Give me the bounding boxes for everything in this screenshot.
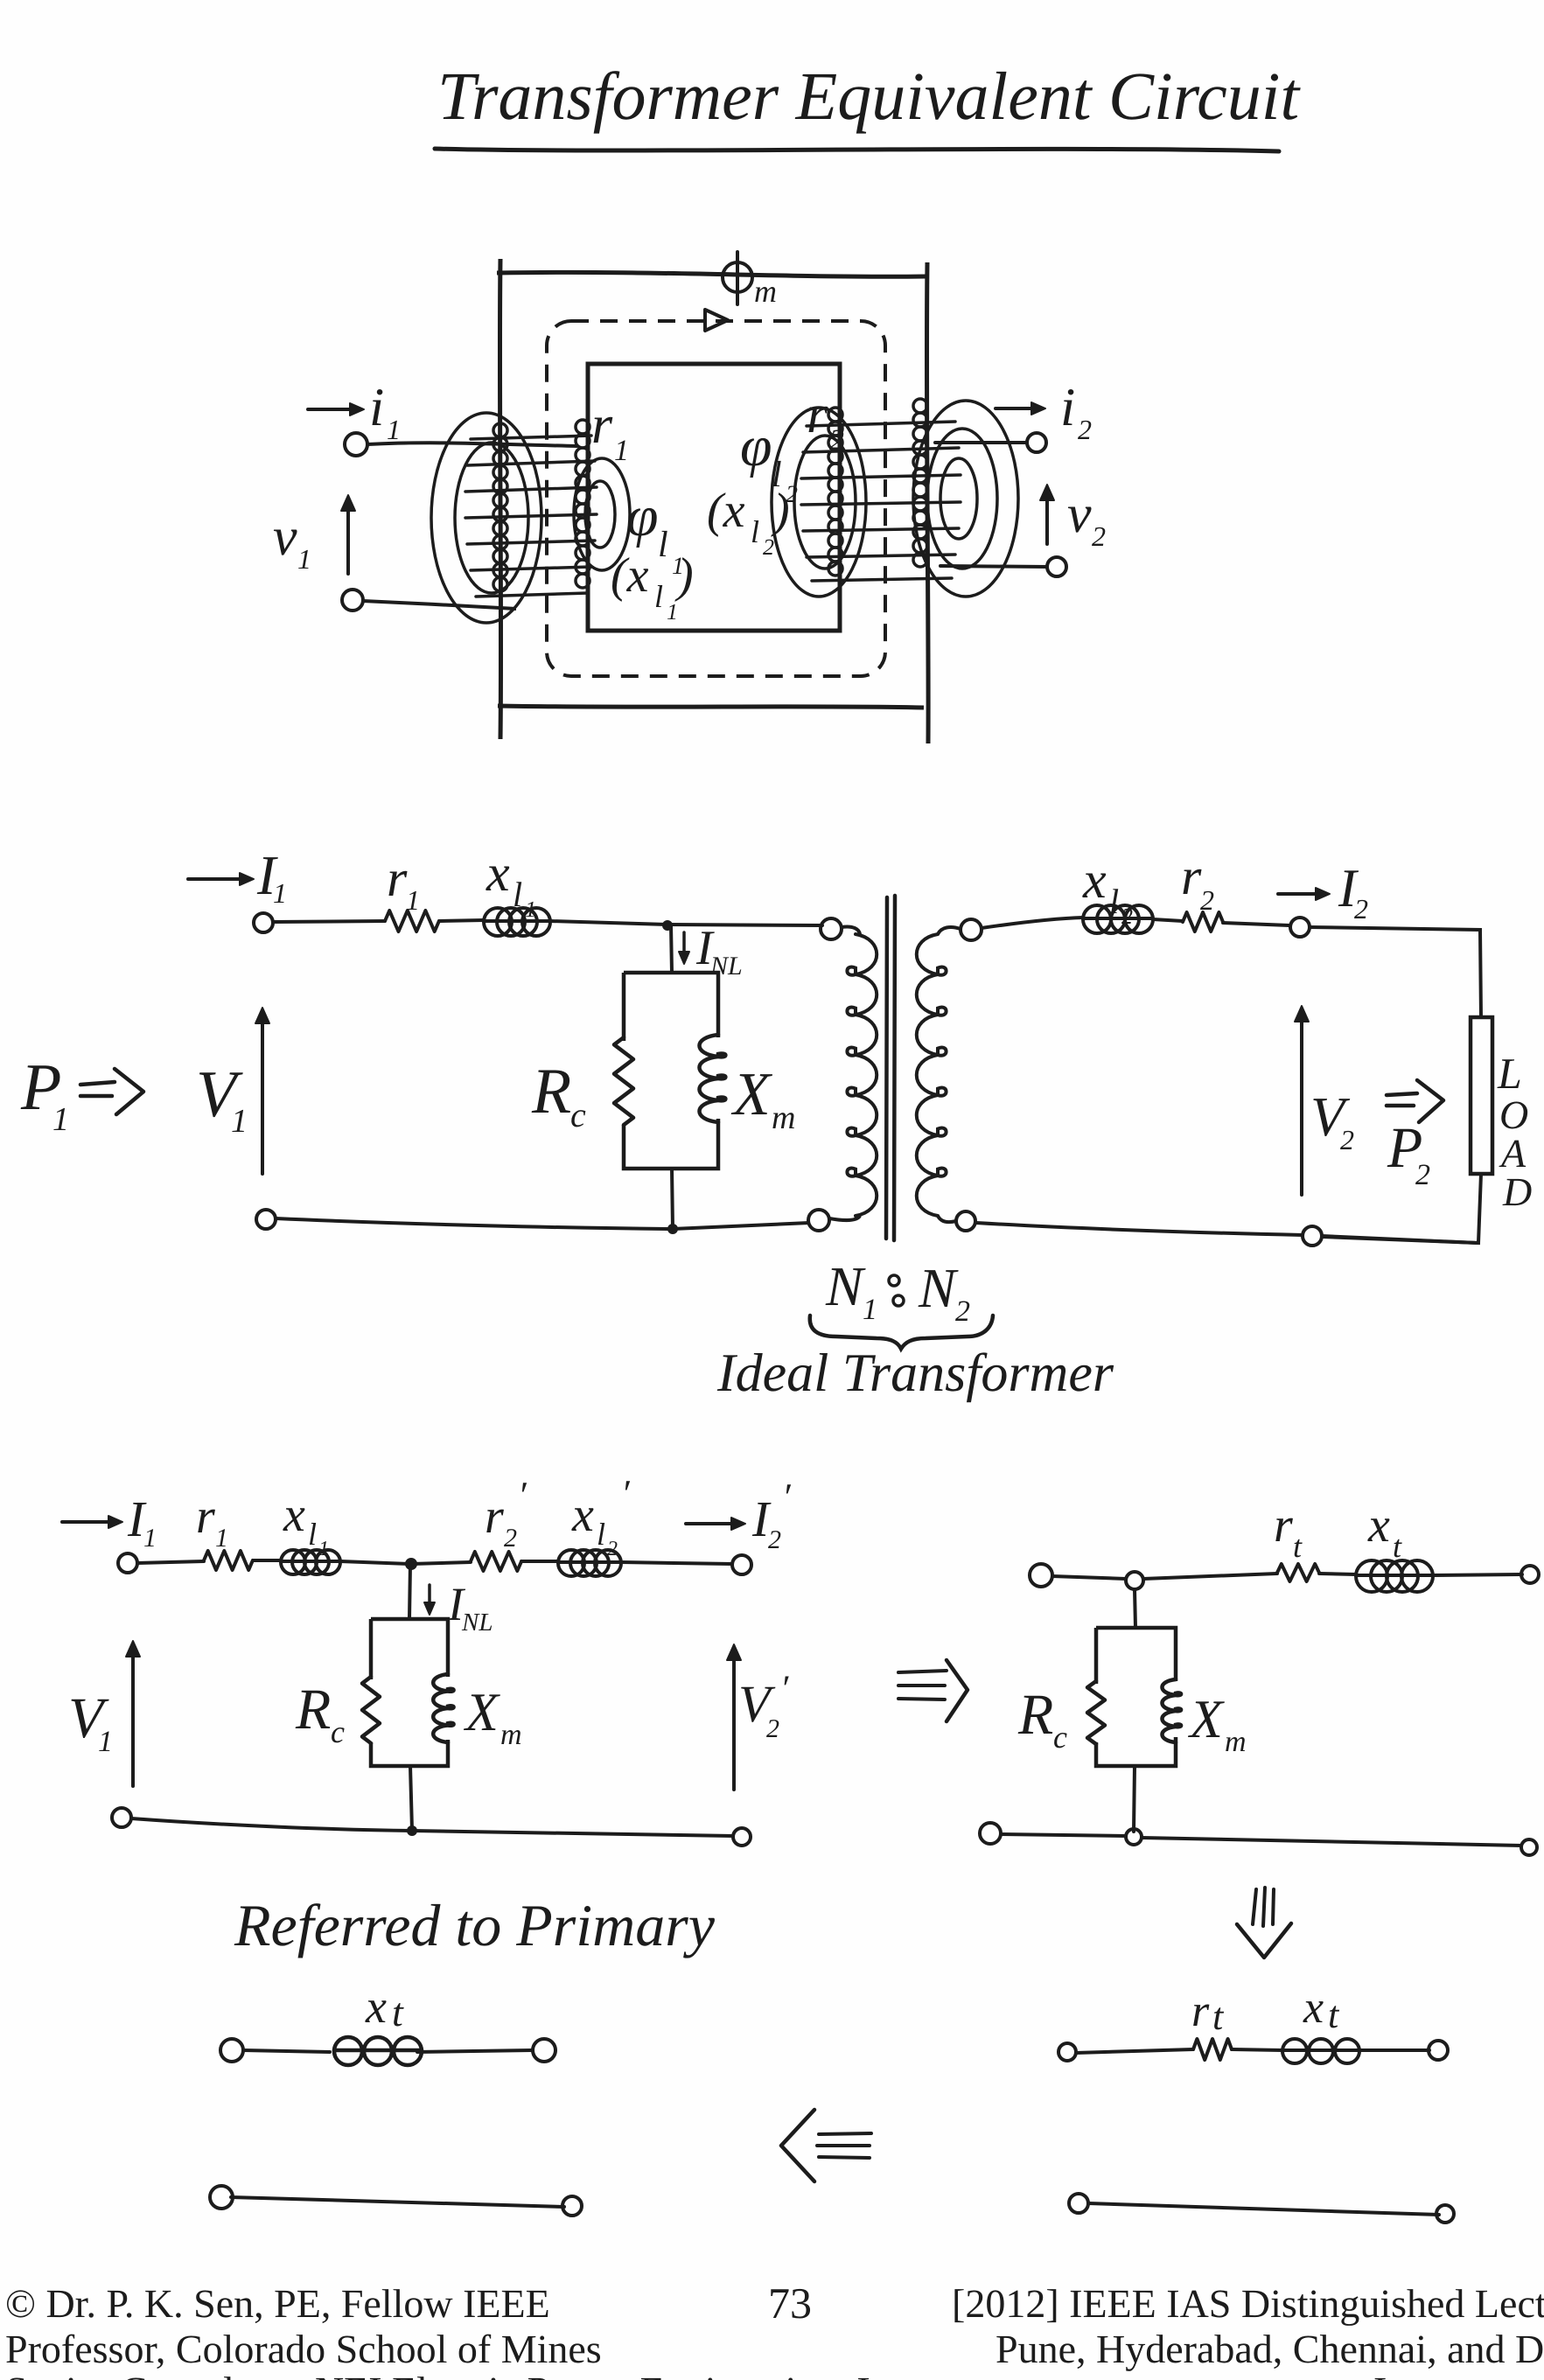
svg-text:x: x [571, 1488, 594, 1542]
arrow I_NL (ref) [428, 1585, 431, 1611]
resistor Rc (ref) [362, 1677, 380, 1743]
wire node to box (simp) [1135, 1589, 1135, 1628]
wire left (bottom-right ckt) [1076, 2049, 1193, 2053]
primary winding turn bumps left column [493, 423, 507, 437]
svg-text:): ) [771, 484, 790, 538]
inductor Xm (ref) [433, 1674, 453, 1742]
svg-text:R: R [1017, 1683, 1053, 1747]
svg-text:t: t [1328, 1993, 1340, 2036]
arrow i1 [308, 408, 360, 411]
flux direction arrowhead [705, 310, 728, 331]
svg-text:x: x [1082, 851, 1107, 909]
node junction (middle) [662, 920, 673, 931]
wire box-bottom (simp) [1134, 1766, 1135, 1832]
svg-text:2: 2 [1092, 520, 1106, 552]
svg-text:m: m [1225, 1726, 1247, 1758]
terminal bottom rail (middle) [1303, 1226, 1322, 1246]
wire right (bottom-left ckt) [417, 2050, 532, 2052]
wire xl2p-terminal (ref) [621, 1562, 732, 1564]
terminal right bottom (simp) [1521, 1839, 1537, 1855]
shunt box (simp) [1096, 1628, 1176, 1766]
wire box to bottom rail (middle) [672, 1169, 673, 1228]
terminal right (bottom-left ckt) [533, 2039, 555, 2062]
shunt box (ref) [371, 1619, 448, 1766]
shunt box (middle) [624, 973, 718, 1169]
flux path Phi_m dashed loop [547, 321, 885, 676]
svg-text:1: 1 [231, 1103, 248, 1140]
svg-text:′: ′ [782, 1476, 792, 1518]
terminal top-right (core) [1027, 433, 1046, 452]
inductor xt (bottom left) [334, 2048, 422, 2053]
arrow I2 (middle) [1278, 892, 1326, 896]
inductor xl1 (middle) [484, 919, 550, 923]
svg-text:x: x [283, 1488, 305, 1542]
flux symbol Phi_m [723, 262, 752, 292]
terminal left (bottom-right ckt) [1058, 2043, 1076, 2061]
wire top-right (core) [935, 441, 1027, 444]
wire coil top stub (middle) [842, 926, 860, 934]
svg-text:1: 1 [525, 897, 536, 922]
wire sec coil bottom stub [938, 1216, 956, 1222]
resistor r2 (middle) [1183, 912, 1223, 932]
svg-text:l: l [597, 1517, 605, 1552]
equiv arrow left [781, 2110, 814, 2181]
svg-text:I: I [1373, 2369, 1387, 2380]
equiv arrow right [898, 1671, 947, 1672]
big arrow P1 [80, 1082, 115, 1085]
svg-text:l: l [654, 579, 663, 614]
arrow I_NL (middle) [682, 932, 686, 960]
svg-text:1: 1 [297, 543, 311, 575]
svg-text:1: 1 [273, 877, 287, 909]
svg-text:r: r [1274, 1498, 1293, 1553]
inductor Xm (simp) [1162, 1679, 1181, 1742]
terminal bottom-left (middle) [256, 1210, 276, 1229]
terminal right (bottom-right ckt) [1429, 2041, 1448, 2060]
svg-text:r: r [1191, 1986, 1210, 2036]
wire left (ref) [137, 1561, 204, 1563]
svg-text:r: r [196, 1490, 215, 1544]
svg-text:L: L [1497, 1049, 1522, 1098]
svg-text:NL: NL [461, 1609, 493, 1637]
node bottom (middle) [667, 1224, 678, 1234]
ideal transformer secondary coil [917, 934, 947, 1216]
svg-text:v: v [273, 507, 297, 567]
svg-text:Senior Consultant, NEI Electri: Senior Consultant, NEI Electric Power En… [5, 2369, 919, 2380]
arrow I1 (ref) [62, 1520, 119, 1524]
svg-text:2: 2 [607, 1538, 618, 1560]
svg-text:x: x [486, 844, 510, 902]
svg-text:x: x [1303, 1983, 1324, 2033]
svg-text:v: v [1067, 485, 1092, 544]
svg-text:1: 1 [667, 599, 678, 625]
terminal primary coil bottom (middle) [808, 1210, 829, 1231]
core inner window rectangle [588, 364, 840, 631]
svg-text:2: 2 [829, 424, 844, 457]
wire top rail left (middle) [273, 921, 385, 922]
svg-text:1: 1 [98, 1726, 113, 1758]
wire bottom rail (middle) [276, 1218, 809, 1229]
node junction (ref) [405, 1558, 417, 1570]
terminal bl2 (bottom-right ckt) [1069, 2194, 1088, 2213]
svg-text:X: X [730, 1061, 773, 1128]
svg-text:2: 2 [766, 1714, 779, 1743]
terminal left bottom (simp) [980, 1823, 1001, 1844]
inductor Xm (middle) [699, 1035, 725, 1122]
svg-text:2: 2 [1340, 1124, 1354, 1155]
node bottom (ref) [407, 1825, 417, 1836]
arrow V2 (middle) [1300, 1009, 1303, 1195]
terminal left bottom (ref) [112, 1808, 131, 1827]
resistor r2p (ref) [471, 1552, 521, 1571]
bottom wire (bottom-left ckt) [231, 2197, 564, 2207]
svg-text:2: 2 [955, 1295, 970, 1328]
wire terminal-load top (middle) [1310, 927, 1481, 1017]
brace ideal transformer [810, 1316, 993, 1349]
svg-text:t: t [1212, 1995, 1225, 2038]
arrow V1 (middle) [261, 1011, 264, 1174]
svg-text:t: t [1293, 1529, 1303, 1564]
svg-text:Transformer Equivalent Circuit: Transformer Equivalent Circuit [437, 58, 1301, 134]
svg-text:R: R [531, 1056, 571, 1127]
big arrow P2 [1387, 1093, 1417, 1095]
inductor xt (simp) [1356, 1574, 1433, 1577]
svg-text:N: N [918, 1257, 959, 1319]
ideal transformer core lines [886, 897, 887, 1239]
wire node to box (ref) [409, 1564, 410, 1619]
svg-text:1: 1 [614, 435, 629, 467]
terminal top-left (core) [345, 433, 367, 456]
svg-text:73: 73 [768, 2279, 812, 2328]
wire bottom rail secondary [976, 1223, 1478, 1243]
svg-text:1: 1 [387, 414, 401, 445]
svg-text:2: 2 [1354, 893, 1368, 925]
wire left-node (simp) [1052, 1576, 1126, 1579]
svg-text:l: l [513, 875, 522, 914]
wire bottom-left (core) [363, 601, 516, 609]
svg-text:′: ′ [780, 1669, 789, 1709]
bottom wire (bottom-right ckt) [1088, 2203, 1439, 2215]
terminal left top (ref) [118, 1553, 137, 1573]
wire node-rt (simp) [1143, 1574, 1277, 1579]
wire xl2-r2 (middle) [1153, 919, 1183, 921]
svg-text:l: l [1109, 882, 1119, 921]
wire rt-xt (simp) [1319, 1574, 1356, 1574]
inductor xl2p (ref) [558, 1560, 621, 1564]
svg-text:r: r [387, 849, 408, 907]
svg-text:1: 1 [863, 1294, 877, 1326]
svg-text:2: 2 [1078, 414, 1092, 445]
primary winding leakage flux ellipses [431, 413, 541, 623]
svg-text:[2012] IEEE IAS Distinguished: [2012] IEEE IAS Distinguished Lecturer P [952, 2281, 1544, 2326]
svg-text:l: l [751, 514, 759, 549]
svg-text:m: m [772, 1099, 795, 1136]
wire coil bottom stub (middle) [829, 1216, 860, 1220]
svg-text:(x: (x [611, 548, 649, 603]
terminal bottom-left (core) [342, 590, 363, 611]
svg-text:Pune, Hyderabad, Chennai, and: Pune, Hyderabad, Chennai, and De [996, 2327, 1544, 2371]
svg-text:′: ′ [621, 1472, 631, 1515]
svg-text:r: r [485, 1490, 504, 1544]
svg-text:2: 2 [1415, 1159, 1430, 1191]
svg-text:Referred to Primary: Referred to Primary [234, 1892, 716, 1958]
wire node to box (middle) [671, 925, 672, 973]
node circle bottom (simp) [1126, 1829, 1142, 1845]
resistor r1 (ref) [204, 1551, 253, 1570]
svg-text:1: 1 [318, 1538, 329, 1560]
svg-text:1: 1 [215, 1524, 228, 1553]
svg-text:1: 1 [143, 1524, 157, 1553]
wire r2p-xl2p (ref) [521, 1560, 558, 1563]
wire r2-terminal (middle) [1223, 923, 1289, 925]
secondary winding turns [807, 422, 955, 426]
svg-text:X: X [1187, 1690, 1225, 1749]
svg-text:(x: (x [707, 484, 745, 538]
terminal right top (simp) [1521, 1566, 1539, 1583]
svg-text:m: m [754, 274, 777, 309]
svg-text:2: 2 [1200, 884, 1214, 916]
svg-text:′: ′ [518, 1474, 527, 1517]
terminal bottom-right (core) [1047, 557, 1066, 576]
wire bottom rail (simp) [1001, 1834, 1522, 1846]
resistor r1 (middle) [385, 911, 439, 932]
svg-text:c: c [1053, 1720, 1067, 1755]
terminal br2 (bottom-right ckt) [1436, 2205, 1454, 2223]
wire mid (bottom-right ckt) [1232, 2049, 1282, 2050]
terminal top-left (middle) [254, 913, 273, 932]
terminal left (bottom-left ckt) [220, 2039, 243, 2062]
load resistor box (middle) [1471, 1017, 1492, 1174]
arrow v2 [1045, 488, 1049, 544]
terminal bl1 (bottom-left ckt) [210, 2186, 233, 2209]
wire r1-xl1 (middle) [439, 920, 484, 921]
svg-text:1: 1 [52, 1101, 69, 1138]
primary winding turns [471, 436, 591, 439]
wire bottom-right (core) [940, 566, 1047, 567]
svg-text:Professor, Colorado School of: Professor, Colorado School of Mines [5, 2327, 602, 2371]
arrow i2 [996, 407, 1042, 410]
secondary winding leakage flux ellipses [772, 408, 866, 597]
terminal br1 (bottom-left ckt) [562, 2196, 582, 2216]
wire bottom rail (ref) [131, 1818, 733, 1836]
svg-text:φ: φ [740, 415, 772, 478]
svg-text:X: X [463, 1683, 500, 1742]
arrow I1 (middle) [188, 877, 250, 881]
inductor xt (bottom right) [1282, 2048, 1359, 2052]
secondary winding turn bumps right column [913, 399, 927, 413]
arrow v1 [346, 499, 350, 574]
terminal I2 (middle) [1290, 918, 1310, 937]
wire node-r2p (ref) [411, 1562, 471, 1564]
wire right (bottom-right ckt) [1359, 2048, 1429, 2052]
resistor rt (bottom right) [1193, 2039, 1232, 2060]
inductor xl1 (ref) [281, 1560, 340, 1563]
primary winding turn bumps right column [576, 420, 590, 434]
svg-text:φ: φ [626, 485, 659, 548]
terminal secondary coil bottom (middle) [956, 1211, 975, 1231]
svg-text:x: x [1367, 1498, 1390, 1553]
svg-text:2: 2 [504, 1524, 517, 1553]
node circle (simp) [1126, 1572, 1143, 1589]
svg-text:m: m [500, 1719, 522, 1751]
arrow V1 (ref) [131, 1644, 135, 1786]
svg-text:c: c [331, 1714, 345, 1749]
terminal primary coil top (middle) [821, 918, 842, 939]
svg-text:1: 1 [406, 884, 420, 916]
svg-text:c: c [570, 1095, 586, 1134]
svg-text:N: N [825, 1255, 866, 1317]
wire load bottom (middle) [1323, 1174, 1481, 1243]
svg-text:Ideal Transformer: Ideal Transformer [716, 1344, 1114, 1403]
svg-text:l: l [658, 525, 668, 565]
svg-text:NL: NL [709, 952, 743, 981]
terminal right top (ref) [732, 1555, 751, 1574]
svg-text:2: 2 [768, 1525, 781, 1554]
wire sec coil top stub [938, 927, 961, 934]
svg-text:r: r [1181, 848, 1202, 905]
svg-text:x: x [365, 1980, 387, 2033]
arrow V2p (ref) [732, 1648, 736, 1790]
svg-text:2: 2 [763, 534, 774, 560]
svg-text:R: R [295, 1678, 331, 1741]
svg-text:© Dr. P. K. Sen, PE, Fellow IE: © Dr. P. K. Sen, PE, Fellow IEEE [5, 2281, 550, 2326]
wire r1-xl1 (ref) [253, 1559, 281, 1562]
equiv arrow down [1253, 1889, 1256, 1924]
wire sec top rail [982, 918, 1083, 928]
terminal right bottom (ref) [733, 1828, 751, 1846]
svg-text:): ) [674, 548, 694, 603]
resistor Rc (middle) [614, 1037, 633, 1125]
terminal secondary coil top (middle) [961, 919, 982, 940]
wire xt-terminal (simp) [1433, 1574, 1522, 1575]
svg-text:D: D [1502, 1169, 1532, 1214]
svg-text:t: t [392, 1990, 404, 2035]
core outer rectangle [497, 272, 926, 276]
arrow I2p (ref) [686, 1522, 742, 1525]
terminal left top (simp) [1030, 1564, 1052, 1587]
wire box-bottom (ref) [410, 1766, 412, 1830]
svg-text:2: 2 [1121, 904, 1133, 929]
svg-text:i: i [1060, 378, 1075, 437]
wire xl1-node (middle) [550, 921, 667, 925]
wire top-left (core) [367, 443, 577, 446]
secondary winding turn bumps left column [828, 408, 842, 422]
wire left (bottom-left ckt) [243, 2050, 330, 2052]
resistor Rc (simp) [1087, 1681, 1105, 1744]
svg-text:r: r [591, 395, 613, 455]
svg-text:i: i [369, 378, 384, 437]
ideal transformer primary coil [847, 934, 877, 1216]
resistor rt (simp) [1277, 1564, 1319, 1581]
wire node-coil (middle) [667, 925, 822, 925]
inductor xl2 (middle) [1083, 917, 1153, 920]
svg-text:l: l [308, 1517, 317, 1552]
wire xl1-node (ref) [340, 1561, 409, 1564]
svg-text:t: t [1393, 1529, 1402, 1564]
svg-text:r: r [807, 385, 828, 444]
